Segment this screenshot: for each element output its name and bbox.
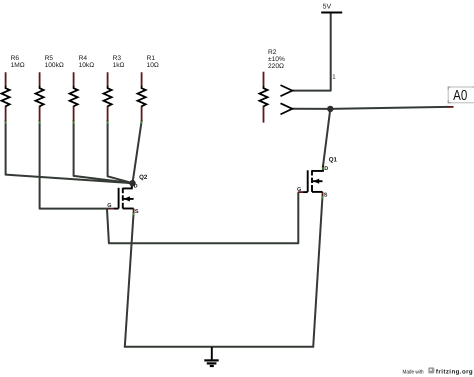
svg-text:5V: 5V [323, 3, 332, 10]
svg-text:G: G [107, 203, 111, 209]
svg-text:100kΩ: 100kΩ [45, 62, 64, 69]
svg-text:Made with: Made with [403, 369, 424, 375]
svg-text:R2: R2 [268, 49, 277, 56]
svg-text:10Ω: 10Ω [147, 62, 159, 69]
svg-text:A0: A0 [453, 88, 467, 104]
svg-text:S: S [324, 193, 328, 199]
svg-text:fritzing.org: fritzing.org [436, 368, 473, 375]
svg-text:10kΩ: 10kΩ [79, 62, 95, 69]
svg-text:1kΩ: 1kΩ [113, 62, 125, 69]
svg-text:D: D [134, 183, 138, 189]
svg-text:G: G [297, 187, 301, 193]
svg-text:1: 1 [332, 74, 336, 81]
svg-text:Q1: Q1 [329, 156, 338, 163]
svg-text:220Ω: 220Ω [268, 63, 284, 70]
svg-text:1MΩ: 1MΩ [11, 62, 25, 69]
svg-text:D: D [324, 166, 328, 172]
svg-text:S: S [135, 209, 139, 215]
svg-text:Q2: Q2 [139, 174, 148, 181]
